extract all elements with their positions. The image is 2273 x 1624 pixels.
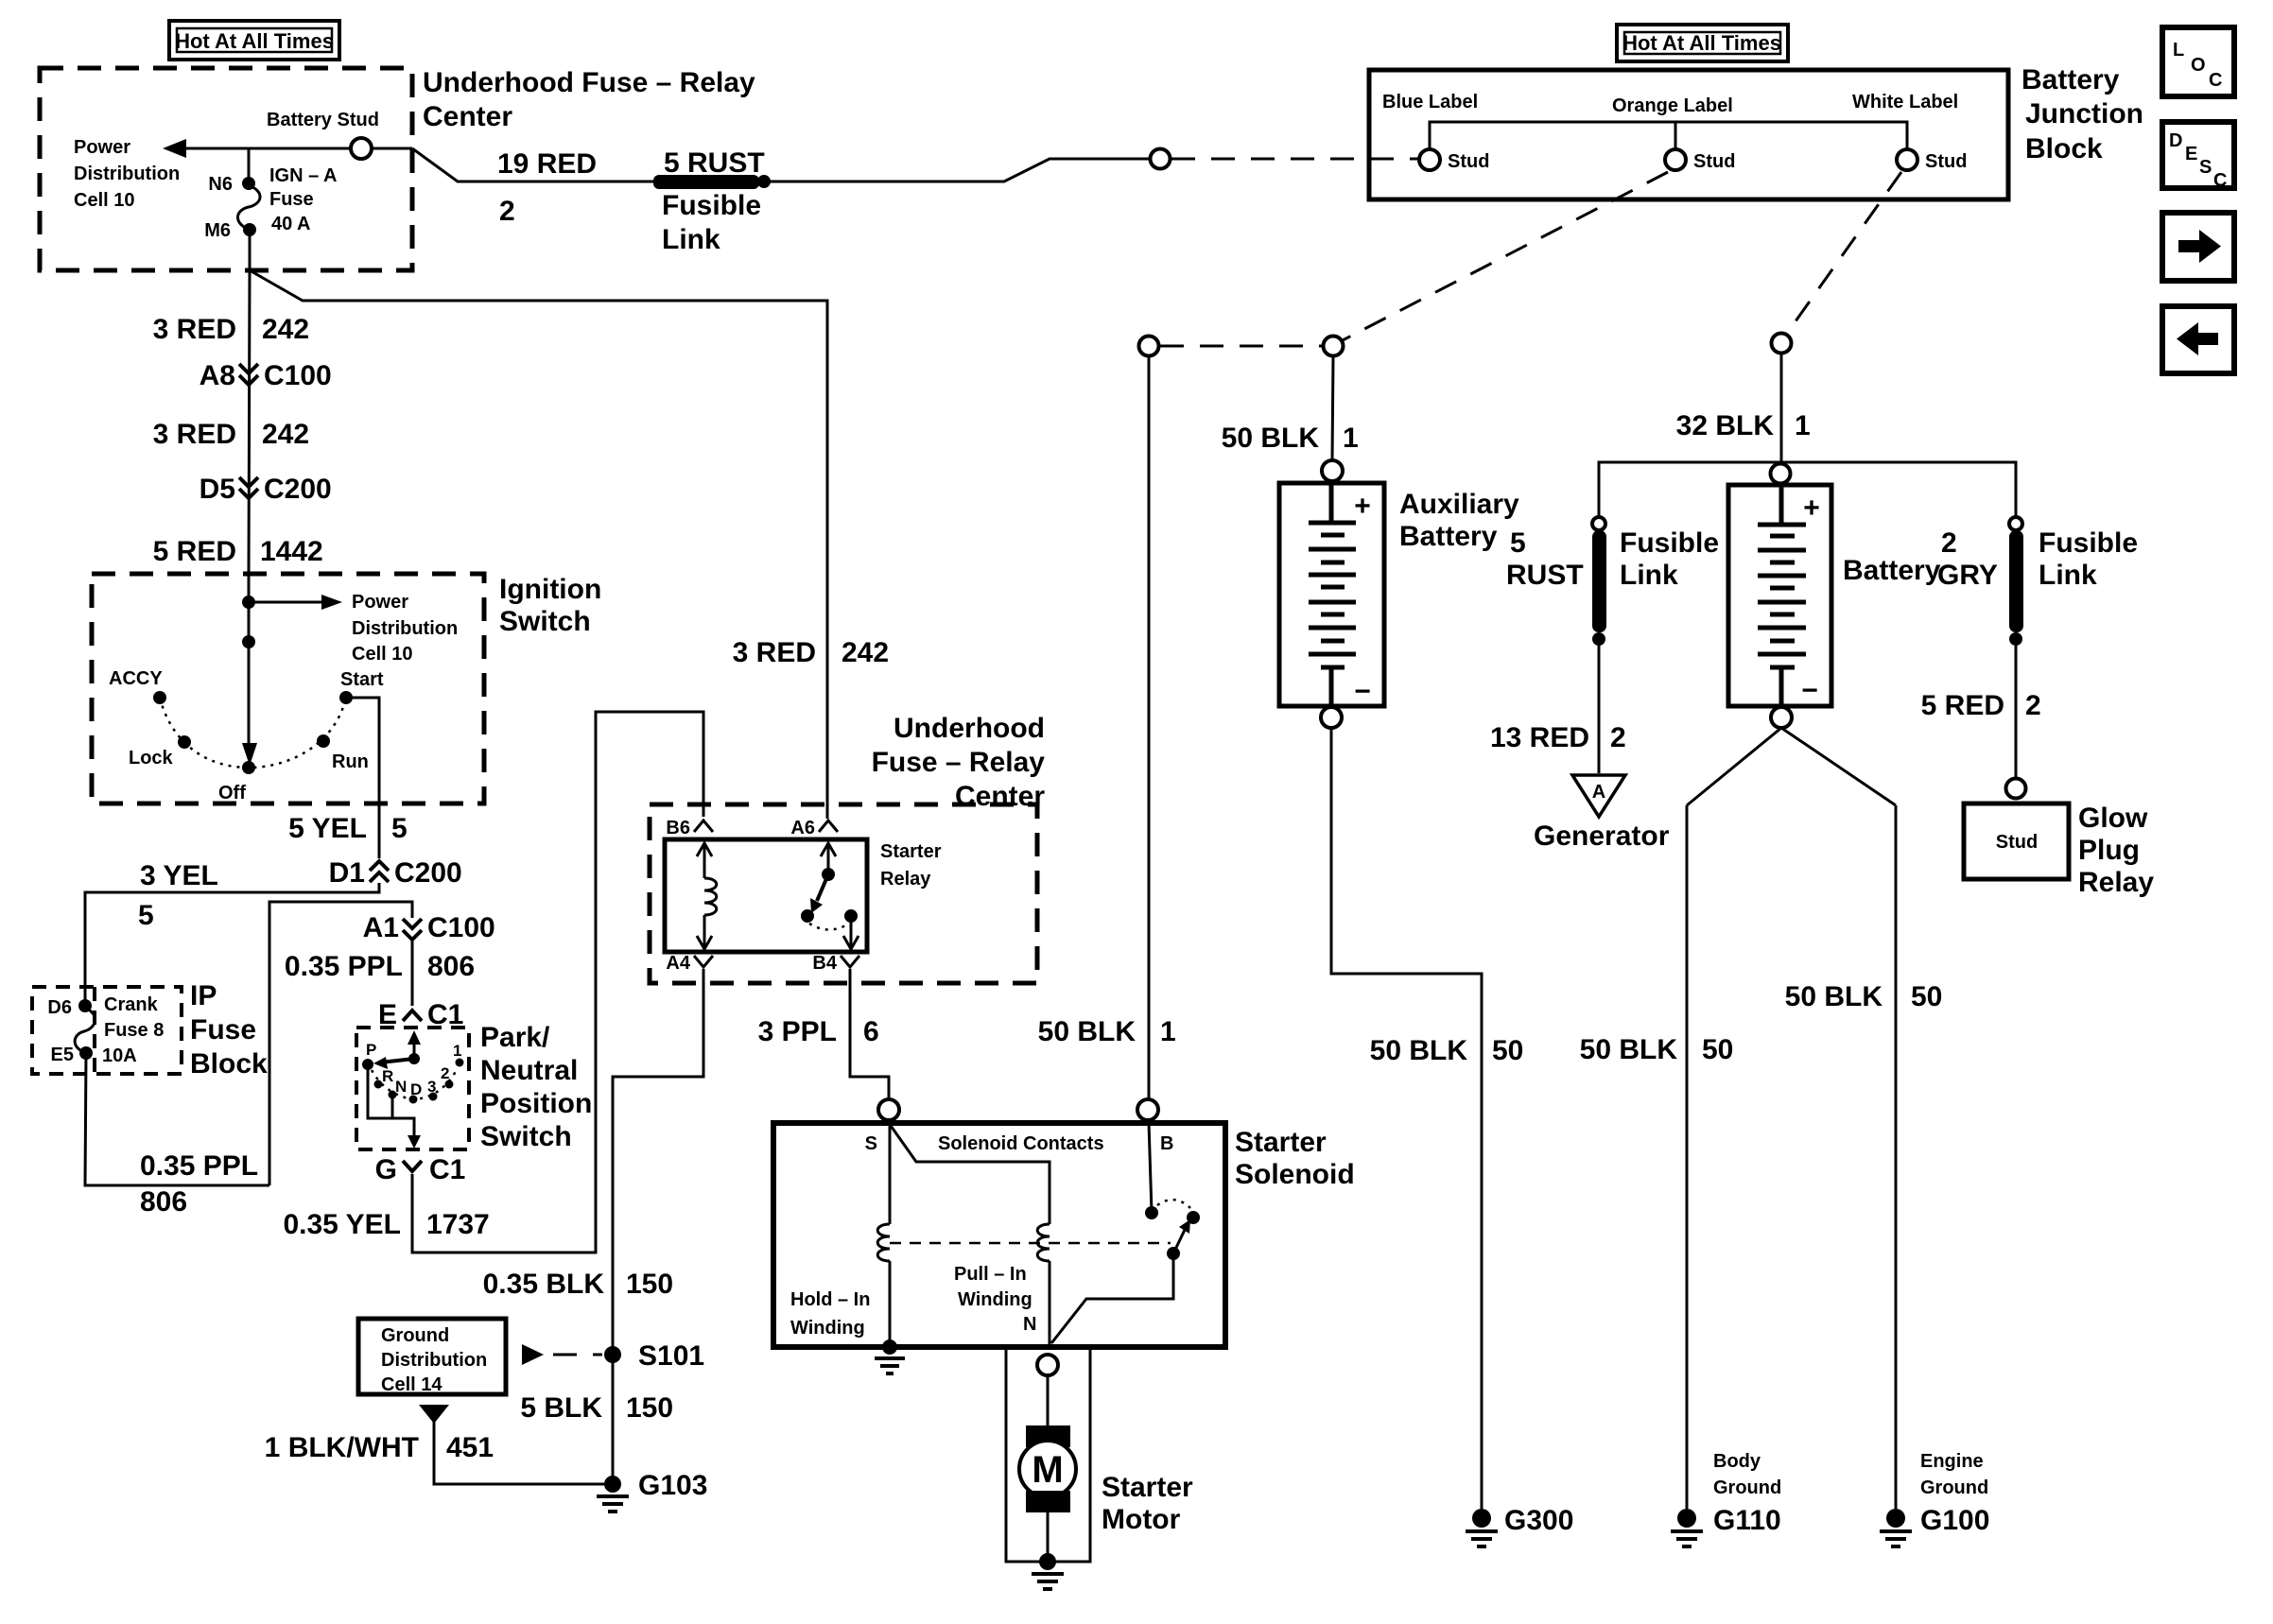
label Park/Neutral Position Switch: [480, 1022, 592, 1152]
svg-text:Switch: Switch: [480, 1121, 572, 1152]
node at link end: [757, 175, 771, 188]
svg-text:19 RED: 19 RED: [497, 148, 597, 180]
contact dot R: [374, 1080, 383, 1089]
svg-text:1: 1: [1795, 410, 1811, 441]
svg-text:5 YEL: 5 YEL: [288, 813, 367, 844]
svg-text:M6: M6: [204, 220, 231, 241]
ground G300: [1466, 1509, 1498, 1546]
label Crank Fuse 8 10A: [102, 994, 164, 1066]
svg-text:5 RED: 5 RED: [153, 536, 236, 567]
svg-text:Solenoid: Solenoid: [1235, 1159, 1355, 1190]
pin B4 (down chevron): [812, 953, 859, 974]
svg-text:G103: G103: [638, 1470, 707, 1501]
wire 13 RED to generator: [1598, 639, 1601, 773]
svg-text:C200: C200: [394, 857, 462, 889]
contact dot D: [409, 1096, 418, 1104]
label 1 BLK/WHT 451: [265, 1432, 494, 1463]
wire: G down, over and up to relay coil B6: [412, 712, 703, 1253]
svg-text:1737: 1737: [426, 1209, 490, 1240]
svg-text:Fuse: Fuse: [269, 189, 314, 210]
icon box left arrow: [2162, 306, 2234, 373]
wire: M6 down and out of box: [249, 234, 250, 574]
P/N switch: wiper arm to P with arrowhead: [380, 1059, 414, 1063]
internal ground (hold-in): [875, 1339, 905, 1373]
label Pull-In Winding: [954, 1264, 1032, 1310]
wire aux battery negative to G300: [1331, 728, 1482, 1509]
label 0.35 BLK 150: [483, 1269, 673, 1300]
fusible link (5 RUST, top): [653, 175, 759, 189]
label Power Distribution Cell 10 Start (ignition): [340, 592, 458, 690]
svg-text:ACCY: ACCY: [109, 668, 163, 689]
stud circle blue: [1419, 149, 1440, 170]
pin B6 (up chevron): [666, 818, 713, 838]
wire: Start contact out of box down: [346, 698, 379, 858]
battery (main) top circle: [1771, 464, 1791, 484]
label Battery Junction Block: [2021, 64, 2143, 164]
wire A4 to S101 branch: [613, 969, 703, 1349]
svg-text:B4: B4: [812, 953, 837, 974]
label 32 BLK 1: [1676, 410, 1811, 441]
contact arm riser from N: [1051, 1253, 1173, 1343]
svg-text:R: R: [382, 1067, 393, 1085]
terminal circle S: [878, 1099, 899, 1120]
dotted rotation arc ACCY-Lock-Off-Run-Start: [160, 698, 346, 768]
svg-text:Hot At All Times: Hot At All Times: [175, 29, 334, 53]
relay output to B4 with arrow: [843, 916, 859, 949]
contact dot 1: [456, 1059, 464, 1067]
svg-text:Distribution: Distribution: [74, 164, 180, 184]
label Ignition Switch: [499, 574, 601, 637]
svg-text:B: B: [1160, 1133, 1173, 1154]
svg-text:Auxiliary: Auxiliary: [1399, 489, 1519, 520]
svg-text:Off: Off: [218, 783, 246, 803]
label Engine Ground: [1920, 1451, 1988, 1498]
svg-text:150: 150: [626, 1392, 673, 1424]
svg-text:Blue Label: Blue Label: [1382, 92, 1478, 112]
svg-text:D1: D1: [329, 857, 365, 889]
svg-text:Solenoid Contacts: Solenoid Contacts: [938, 1133, 1104, 1154]
svg-text:Link: Link: [1620, 560, 1678, 591]
ground G100: [1880, 1509, 1912, 1546]
Ignition Switch dashed box: [92, 574, 484, 803]
stud circle white: [1897, 149, 1917, 170]
junction circle (battery 32 BLK): [1772, 334, 1792, 354]
svg-text:0.35 BLK: 0.35 BLK: [483, 1269, 605, 1300]
svg-text:Power: Power: [352, 592, 408, 613]
svg-text:Hold – In: Hold – In: [790, 1289, 870, 1310]
svg-text:Lock: Lock: [129, 748, 174, 769]
svg-text:Relay: Relay: [2078, 867, 2154, 898]
svg-text:0.35 PPL: 0.35 PPL: [140, 1150, 258, 1182]
wire battery negative to G110: [1686, 805, 1689, 1509]
svg-text:White Label: White Label: [1852, 92, 1958, 112]
svg-text:5: 5: [1510, 527, 1526, 559]
wire 5 RED to glow plug relay: [2015, 639, 2018, 778]
ground G103: [597, 1476, 629, 1512]
svg-text:Fuse 8: Fuse 8: [104, 1020, 164, 1041]
terminal circle B: [1137, 1099, 1158, 1120]
svg-text:5 RED: 5 RED: [1921, 690, 2004, 721]
svg-text:C: C: [2209, 70, 2222, 91]
svg-text:Position: Position: [480, 1088, 592, 1119]
svg-text:0.35 PPL: 0.35 PPL: [285, 951, 403, 982]
svg-text:A6: A6: [790, 818, 815, 838]
svg-text:Distribution: Distribution: [381, 1350, 487, 1371]
svg-text:Starter: Starter: [880, 841, 942, 862]
svg-text:451: 451: [446, 1432, 494, 1463]
label Starter Solenoid: [1235, 1127, 1355, 1190]
svg-text:5: 5: [391, 813, 408, 844]
svg-text:Distribution: Distribution: [352, 618, 458, 639]
svg-text:Orange Label: Orange Label: [1612, 95, 1733, 116]
label Fusible Link (generator): [1620, 527, 1719, 591]
svg-text:S: S: [865, 1133, 877, 1154]
svg-text:M: M: [1032, 1449, 1063, 1491]
label 50 BLK 1 (aux): [1222, 423, 1359, 454]
svg-text:G110: G110: [1713, 1505, 1781, 1536]
svg-text:O: O: [2191, 55, 2206, 76]
wire S101 to G103: [612, 1355, 615, 1484]
svg-text:3 RED: 3 RED: [733, 637, 816, 668]
svg-text:Fusible: Fusible: [2039, 527, 2138, 559]
wire label 3 RED 242 (first): [153, 314, 309, 345]
moving contact arm with arrow: [1167, 1219, 1190, 1260]
stud circle orange: [1665, 149, 1686, 170]
svg-text:242: 242: [262, 314, 309, 345]
icon box right arrow: [2162, 213, 2234, 281]
svg-text:S101: S101: [638, 1340, 704, 1372]
P/N switch: input arm with up arrow: [413, 1037, 416, 1059]
svg-text:Motor: Motor: [1102, 1504, 1181, 1535]
Park/Neutral Position Switch dashed box: [356, 1028, 469, 1149]
contact dot Start: [339, 691, 353, 704]
svg-text:50: 50: [1702, 1034, 1733, 1065]
aux battery polarity marks: [1354, 491, 1371, 707]
relay coil (B6-A4) with arrows: [697, 843, 717, 949]
svg-text:Switch: Switch: [499, 606, 591, 637]
svg-text:G300: G300: [1504, 1505, 1573, 1536]
svg-text:Park/: Park/: [480, 1022, 550, 1053]
svg-text:10A: 10A: [102, 1045, 137, 1066]
svg-text:50: 50: [1911, 981, 1942, 1012]
svg-text:50: 50: [1492, 1035, 1523, 1066]
svg-text:Fuse – Relay: Fuse – Relay: [872, 747, 1046, 778]
node below 2 GRY link: [2009, 632, 2022, 646]
solenoid contact dots: [1145, 1206, 1158, 1219]
svg-text:Winding: Winding: [958, 1289, 1032, 1310]
svg-text:D: D: [2169, 130, 2182, 151]
label 2 GRY: [1937, 527, 1998, 591]
svg-text:Start: Start: [340, 669, 384, 690]
wire battery negative to G100: [1895, 805, 1898, 1509]
label 3 RED 242 (A6 feed): [733, 637, 889, 668]
wire: below D1 to junction, left to crank fuse branch: [85, 883, 379, 1006]
svg-text:GRY: GRY: [1937, 560, 1998, 591]
label 19 RED / 2: [497, 148, 597, 227]
label Hold-In Winding: [790, 1289, 870, 1339]
starter motor: [1019, 1425, 1076, 1512]
contact dot ACCY: [153, 691, 166, 704]
svg-text:N6: N6: [208, 174, 233, 195]
wire: stud tap down to N6: [248, 148, 251, 183]
dotted arc through unused contacts: [372, 1068, 458, 1099]
P/N internal wiring to G: [368, 1064, 414, 1136]
generator triangle terminal A: [1572, 775, 1625, 817]
fusible link bar (2 GRY): [2009, 530, 2023, 632]
icon box LOC: [2162, 27, 2234, 96]
label box "Hot At All Times" (right): [1617, 25, 1788, 61]
battery polarity marks: [1801, 492, 1820, 706]
contact dot 2: [445, 1080, 454, 1089]
svg-text:Ignition: Ignition: [499, 574, 601, 605]
svg-text:Block: Block: [190, 1048, 268, 1080]
svg-text:50 BLK: 50 BLK: [1785, 981, 1883, 1012]
hold-in winding wire down from S: [889, 1123, 892, 1224]
wire junction to aux battery: [1332, 356, 1333, 460]
svg-text:Cell 14: Cell 14: [381, 1374, 442, 1395]
svg-text:Block: Block: [2025, 133, 2103, 164]
svg-text:806: 806: [427, 951, 475, 982]
svg-text:Battery: Battery: [2021, 64, 2120, 95]
wire label 3 RED 242 (second): [153, 419, 309, 450]
label 5 YEL 5: [288, 813, 408, 844]
label 5 RUST (generator link): [1506, 527, 1584, 591]
label Underhood Fuse-Relay Center (first): [423, 67, 755, 132]
svg-text:1 BLK/WHT: 1 BLK/WHT: [265, 1432, 419, 1463]
svg-text:P: P: [366, 1041, 376, 1059]
IP Fuse Block outer dashed box: [32, 987, 182, 1074]
battery bottom circle: [1771, 707, 1792, 728]
battery (main) box: [1728, 485, 1831, 706]
contact dot Off: [242, 761, 255, 774]
svg-text:RUST: RUST: [1506, 560, 1584, 591]
svg-text:Fuse: Fuse: [190, 1014, 256, 1045]
svg-text:5 RUST: 5 RUST: [664, 147, 765, 179]
dashed wire white stud to battery junction: [1786, 172, 1901, 335]
svg-text:Center: Center: [955, 781, 1045, 812]
svg-text:Battery: Battery: [1843, 555, 1941, 586]
hold-in winding coil: [877, 1224, 890, 1261]
starter solenoid box: [773, 1123, 1225, 1347]
dashed wire orange stud to aux battery junction: [1341, 172, 1668, 341]
svg-text:Underhood: Underhood: [894, 713, 1045, 744]
Ground Distribution Cell 14 box: [358, 1319, 506, 1395]
wire: riser from crank fuse output up and over to A1: [269, 902, 412, 1185]
svg-text:Power: Power: [74, 137, 130, 158]
svg-text:40 A: 40 A: [271, 214, 311, 234]
svg-text:G: G: [375, 1154, 397, 1185]
contact dot Lock: [178, 735, 191, 749]
dashed wire between junction circles: [1160, 345, 1322, 348]
arrowhead left (to Power Distribution Cell 10): [163, 139, 186, 158]
label 0.35 YEL 1737: [283, 1209, 489, 1240]
wire: A1 down to E: [411, 939, 414, 1006]
svg-text:Crank: Crank: [104, 994, 159, 1015]
svg-text:1: 1: [453, 1042, 461, 1060]
svg-text:3 RED: 3 RED: [153, 314, 236, 345]
svg-text:Link: Link: [2039, 560, 2097, 591]
label Starter Motor: [1102, 1472, 1193, 1535]
label Power Distribution Cell 10 (top left): [74, 137, 180, 211]
svg-text:Run: Run: [332, 752, 369, 772]
fusible link (5 RUST, generator) top circle: [1592, 517, 1605, 530]
B wire to contact: [1149, 1123, 1152, 1213]
wire: key feed with arrow to Off: [248, 574, 251, 745]
hold-in winding to internal ground: [889, 1261, 892, 1347]
fusible link (2 GRY) top circle: [2009, 517, 2022, 530]
svg-text:Pull – In: Pull – In: [954, 1264, 1027, 1285]
svg-text:E: E: [2185, 144, 2197, 164]
svg-text:B6: B6: [666, 818, 690, 838]
contact dot P: [362, 1059, 373, 1070]
svg-text:Ground: Ground: [381, 1325, 449, 1346]
svg-text:6: 6: [863, 1016, 879, 1047]
wire junction to battery bus: [1780, 354, 1783, 462]
ground (starter motor): [1032, 1553, 1064, 1589]
svg-text:A1: A1: [363, 912, 399, 943]
pin A4 (down chevron): [666, 953, 713, 974]
fusible link bar (5 RUST generator): [1592, 530, 1606, 632]
wires from battery negative splay to grounds: [1687, 728, 1896, 805]
svg-text:Battery: Battery: [1399, 521, 1498, 552]
fuse IGN-A (S-curve N6 to M6): [237, 185, 260, 230]
label 0.35 PPL 806 (upper): [285, 951, 475, 982]
label 5 RED 2: [1921, 690, 2041, 721]
starter relay box: [665, 839, 867, 952]
label Underhood Fuse-Relay Center (second): [872, 713, 1046, 812]
svg-text:Engine: Engine: [1920, 1451, 1984, 1472]
node on feed inside ignition switch: [242, 596, 255, 609]
label Fusible Link (glow plug): [2039, 527, 2138, 591]
svg-text:A4: A4: [666, 953, 690, 974]
svg-text:Relay: Relay: [880, 869, 931, 890]
svg-text:50 BLK: 50 BLK: [1222, 423, 1320, 454]
svg-text:Battery Stud: Battery Stud: [267, 110, 379, 130]
label IGN-A Fuse 40 A: [269, 165, 338, 234]
svg-text:13 RED: 13 RED: [1490, 722, 1589, 753]
Underhood Fuse-Relay Center dashed box (first): [40, 68, 412, 270]
pin A6 (up chevron): [790, 818, 838, 838]
label 50 BLK 1 (solenoid B feed): [1038, 1016, 1176, 1047]
connector A1 C100 (down chevrons): [363, 912, 495, 943]
wire N to starter motor: [1047, 1375, 1050, 1427]
svg-text:3 RED: 3 RED: [153, 419, 236, 450]
svg-text:806: 806: [140, 1186, 187, 1218]
ground G110: [1671, 1509, 1703, 1546]
label IP Fuse Block: [190, 980, 268, 1080]
svg-text:C: C: [2213, 170, 2227, 191]
node M6: [243, 223, 256, 236]
relay switch arm A6 side: [810, 843, 836, 913]
label 50 BLK 50 (G110): [1580, 1034, 1734, 1065]
node E5: [79, 1046, 93, 1060]
svg-text:A8: A8: [200, 360, 235, 391]
auxiliary battery top circle: [1322, 460, 1343, 481]
wire label 5 RED 1442: [153, 536, 323, 567]
auxiliary battery plates: [1309, 485, 1356, 704]
svg-text:50 BLK: 50 BLK: [1370, 1035, 1468, 1066]
label 50 BLK 50 (G300): [1370, 1035, 1524, 1066]
label 3 PPL 6: [758, 1016, 879, 1047]
label box "Hot At All Times" (left): [169, 21, 339, 60]
connector D5 C200: [200, 474, 332, 505]
svg-text:Underhood Fuse – Relay: Underhood Fuse – Relay: [423, 67, 755, 98]
svg-text:S: S: [2199, 157, 2212, 178]
wire: battery stud feed to Power Distribution arrow: [185, 147, 350, 150]
auxiliary battery box: [1279, 483, 1384, 706]
svg-text:1442: 1442: [260, 536, 323, 567]
svg-text:Fusible: Fusible: [1620, 527, 1719, 559]
label 50 BLK 50 (G100): [1785, 981, 1943, 1012]
svg-text:Ground: Ground: [1920, 1477, 1988, 1498]
svg-text:50 BLK: 50 BLK: [1038, 1016, 1136, 1047]
svg-text:242: 242: [262, 419, 309, 450]
arrow and dashed link to S101 (from Ground Distribution): [522, 1344, 602, 1365]
glow plug relay box: [1964, 803, 2069, 879]
dashed wire to Battery Junction Block blue stud: [1171, 158, 1419, 161]
icon box DESC: [2162, 122, 2234, 191]
IP Fuse Block inner dashed partition: [93, 987, 96, 1074]
glow plug stud circle: [2006, 779, 2026, 799]
wire: link to dashed junction circle: [764, 159, 1151, 181]
svg-text:Glow: Glow: [2078, 803, 2148, 834]
node on feed (second): [242, 635, 255, 648]
svg-text:L: L: [2173, 40, 2184, 60]
svg-text:Body: Body: [1713, 1451, 1761, 1472]
svg-text:E5: E5: [51, 1045, 74, 1065]
relay contact dashed arc: [809, 924, 849, 930]
svg-text:G100: G100: [1920, 1505, 1989, 1536]
svg-text:Hot At All Times: Hot At All Times: [1622, 31, 1781, 55]
wire B4 to solenoid S: [850, 969, 889, 1099]
svg-text:3 PPL: 3 PPL: [758, 1016, 837, 1047]
fuse Crank Fuse 8 (S-curve D6 to E5): [75, 1008, 95, 1053]
pull-in winding down to N: [1049, 1261, 1051, 1347]
svg-text:Plug: Plug: [2078, 835, 2140, 866]
svg-text:242: 242: [842, 637, 889, 668]
contact dot 3: [429, 1093, 438, 1101]
svg-text:−: −: [1801, 675, 1818, 706]
svg-text:Stud: Stud: [1448, 151, 1489, 172]
svg-text:Generator: Generator: [1534, 821, 1670, 852]
svg-text:2: 2: [2025, 690, 2041, 721]
arrow to Power Distribution Cell 10 (ignition): [249, 601, 321, 604]
svg-text:Link: Link: [662, 224, 720, 255]
svg-text:Stud: Stud: [1925, 151, 1967, 172]
bus bar inside BJB: [1430, 122, 1907, 149]
svg-text:2: 2: [499, 196, 515, 227]
label 3 YEL 5: [138, 860, 218, 931]
svg-text:Starter: Starter: [1102, 1472, 1193, 1503]
svg-text:5 BLK: 5 BLK: [520, 1392, 602, 1424]
wire 50 BLK down to solenoid B: [1148, 356, 1151, 1099]
starter motor enclosure: [1006, 1347, 1090, 1562]
svg-text:Fusible: Fusible: [662, 190, 761, 221]
svg-text:+: +: [1803, 492, 1820, 524]
svg-text:IGN – A: IGN – A: [269, 165, 338, 186]
svg-text:D6: D6: [47, 997, 72, 1018]
contact dot Run: [317, 734, 330, 748]
label Body Ground: [1713, 1451, 1781, 1498]
label 5 BLK 150: [520, 1392, 673, 1424]
junction circle (aux battery): [1324, 337, 1344, 356]
wire: branch diagonal to A6 feed: [250, 270, 827, 819]
svg-text:N: N: [1023, 1314, 1036, 1335]
svg-text:0.35 YEL: 0.35 YEL: [283, 1209, 401, 1240]
svg-text:1: 1: [1160, 1016, 1176, 1047]
svg-text:N: N: [395, 1078, 407, 1096]
battery top bus with drops to fusible links: [1599, 462, 2016, 517]
